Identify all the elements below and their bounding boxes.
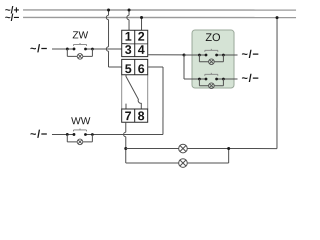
lamp E1 (top) [179, 144, 188, 153]
svg-text:~/−: ~/− [5, 13, 20, 24]
svg-text:WW: WW [71, 116, 91, 127]
junction dot on - rail at x=277 [276, 16, 279, 19]
junction dot right of lamp branches [227, 147, 230, 150]
terminal box 5 6 [122, 59, 148, 74]
ZO1 contact dots [205, 54, 208, 57]
ZW lamp parallel branch [67, 49, 92, 56]
wire pin 4 to ZO group [148, 54, 184, 56]
ZW contact dots [73, 48, 76, 51]
pushbutton ZO1 wire right [217, 54, 238, 56]
svg-text:8: 8 [138, 109, 145, 123]
ZO group box [192, 30, 234, 88]
pushbutton WW actuator bar [73, 128, 86, 131]
pushbutton ZW wire right to pin 3 [86, 48, 122, 50]
pushbutton WW wire left [52, 133, 74, 135]
wire from + rail to pin 5 (with hops) [106, 10, 121, 67]
svg-text:~/−: ~/− [242, 49, 260, 61]
pushbutton ZO2 actuator bar [205, 73, 218, 76]
pushbutton WW wire right to x=163 riser [85, 133, 162, 135]
WW lamp parallel branch [67, 134, 92, 141]
svg-text:~/−: ~/− [30, 129, 48, 141]
relay contact blade from pin 5 to pin 8 [126, 75, 141, 109]
relay fixed contact stub above pin 7 [125, 104, 127, 109]
pushbutton ZO1 actuator bar [205, 49, 218, 52]
wire pin 7 down to lamps (hop over WW wire) [124, 122, 126, 163]
WW glow lamp [77, 139, 83, 145]
terminal box 1 2 3 4 [122, 30, 148, 56]
WW branch junction dots [66, 133, 69, 136]
ZO2 branch junction dots [198, 78, 201, 81]
ZO2 glow lamp [209, 83, 215, 89]
junction dot on + rail at x=129 [128, 8, 131, 11]
ZW branch junction dots [66, 48, 69, 51]
ZW glow lamp [77, 54, 83, 60]
ZO1 lamp parallel branch [199, 55, 223, 62]
junction dot at ZO feed [183, 54, 186, 57]
timer relay outline (middle section) [122, 75, 148, 109]
pushbutton ZO1 wire left [184, 54, 206, 56]
svg-text:7: 7 [125, 109, 132, 123]
lamp branch top wire [126, 147, 229, 149]
wire from - rail to pin 2 [141, 17, 143, 30]
ZO2 lamp parallel branch [199, 79, 223, 86]
wire from + rail to pin 1 (hop over - rail) [127, 10, 129, 30]
pushbutton ZO2 wire right [217, 78, 238, 80]
pushbutton ZW wire left [52, 48, 74, 50]
wire ZO feed down to second switch [183, 55, 185, 79]
rail L/+ [23, 9, 296, 11]
ZO2 contact dots [205, 78, 208, 81]
wire from - rail down right side to lamps [229, 18, 277, 149]
svg-text:~/−: ~/− [30, 43, 48, 55]
svg-text:3: 3 [125, 43, 132, 57]
WW contact dots [73, 133, 76, 136]
ZO1 glow lamp [209, 59, 215, 65]
ZO1 branch junction dots [198, 54, 201, 57]
svg-text:4: 4 [138, 43, 145, 57]
junction dot on + rail at x=108.5 [107, 8, 110, 11]
svg-text:5: 5 [125, 62, 132, 76]
wire pin 6 to riser x=163 [148, 67, 163, 135]
terminal box 7 8 [122, 109, 148, 122]
pushbutton ZO2 wire left [184, 78, 206, 80]
svg-text:ZO: ZO [205, 32, 221, 44]
junction dot on - rail at x=141.5 [140, 16, 143, 19]
svg-text:ZW: ZW [72, 30, 88, 41]
svg-text:6: 6 [138, 62, 145, 76]
junction dot left of lamp branches [124, 147, 127, 150]
svg-text:2: 2 [138, 30, 145, 44]
rail N/- [23, 16, 296, 18]
svg-text:1: 1 [125, 30, 132, 44]
pushbutton ZW actuator bar [74, 43, 87, 46]
svg-text:~/−: ~/− [242, 73, 260, 85]
lamp branch bottom wire [126, 148, 229, 163]
lamp E2 (bottom) [179, 159, 188, 168]
